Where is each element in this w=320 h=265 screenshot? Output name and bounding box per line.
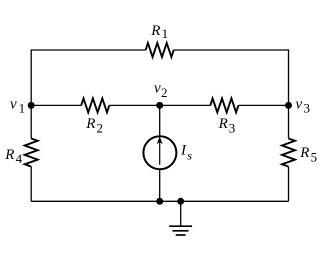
- wire middle R3 to v3: [238, 104, 288, 106]
- resistor R5: [282, 139, 295, 167]
- wire left R4 down to bottom: [30, 167, 32, 202]
- resistor R2: [81, 98, 109, 112]
- svg-text:R2: R2: [85, 116, 103, 135]
- junction dot at source bottom: [156, 198, 163, 205]
- svg-text:Is: Is: [180, 143, 192, 163]
- wire v2 down to current source: [159, 105, 161, 136]
- svg-text:R5: R5: [299, 145, 317, 164]
- svg-text:R3: R3: [218, 116, 236, 135]
- node v1 dot: [28, 102, 35, 109]
- svg-text:R1: R1: [150, 23, 168, 41]
- node v2 dot: [156, 102, 163, 109]
- wire middle v1 to R2: [31, 104, 81, 106]
- wire top-right from R1 to corner: [174, 50, 289, 105]
- wire top-left from corner to R1: [31, 50, 145, 105]
- svg-text:v3: v3: [296, 96, 310, 115]
- ground: [169, 226, 192, 235]
- node v3 dot: [285, 102, 292, 109]
- wire ground stem: [180, 201, 182, 225]
- current source arrow: [157, 136, 163, 165]
- wire middle R2 to R3: [109, 104, 210, 106]
- wire current source to bottom: [159, 169, 161, 201]
- junction dot at ground: [177, 198, 184, 205]
- svg-text:v2: v2: [154, 81, 167, 100]
- wire bottom: [31, 200, 288, 202]
- resistor R4: [25, 139, 38, 167]
- resistor R3: [210, 98, 238, 112]
- wire left v1 down to R4: [30, 105, 32, 138]
- resistor R1: [146, 43, 174, 57]
- svg-text:v1: v1: [10, 96, 25, 115]
- current source Is circle: [143, 136, 176, 169]
- svg-text:R4: R4: [4, 147, 22, 166]
- wire right R5 down to bottom: [288, 167, 290, 202]
- wire right v3 down to R5: [288, 105, 290, 138]
